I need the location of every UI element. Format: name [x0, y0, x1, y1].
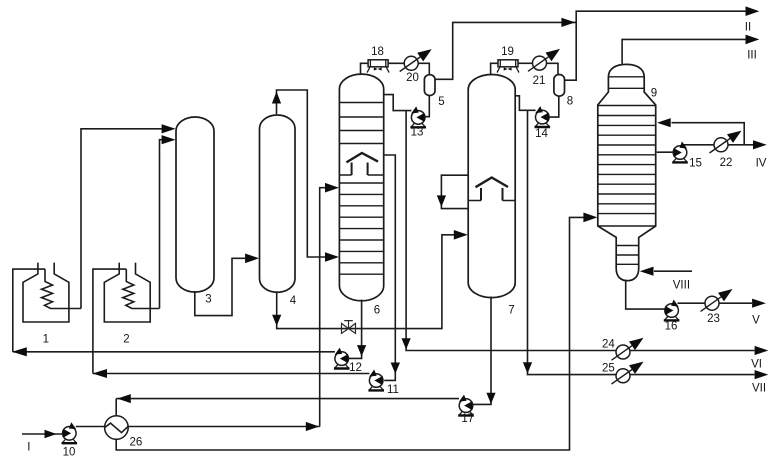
pipe pump10 to HX26 — [76, 426, 105, 428]
svg-text:8: 8 — [567, 96, 573, 108]
svg-text:20: 20 — [406, 72, 419, 84]
cooler 23 — [701, 289, 733, 311]
heat exchanger 26 — [105, 416, 129, 440]
pipe furnace 2 feed — [92, 269, 369, 378]
pipe pump 14 reflux to column 7 — [515, 96, 535, 111]
svg-text:II: II — [745, 21, 751, 33]
pipe cooler 20 to vessel 5 — [418, 63, 429, 75]
svg-text:5: 5 — [438, 96, 444, 108]
pipe column 6 bottoms to pump 12 — [349, 300, 366, 359]
pipe column 3 bottoms to column 4 — [195, 254, 259, 316]
furnace 2 — [104, 263, 159, 322]
pipe column 6 side draw to pump 11 — [384, 155, 400, 380]
svg-text:IV: IV — [756, 157, 767, 169]
svg-text:4: 4 — [290, 295, 297, 307]
svg-text:V: V — [752, 314, 760, 326]
pipe pump 16 to cooler 23 and stream V — [678, 299, 766, 308]
svg-text:11: 11 — [387, 384, 399, 396]
svg-text:23: 23 — [707, 313, 720, 325]
cooler 21 — [528, 49, 560, 71]
svg-text:19: 19 — [501, 46, 514, 58]
column 9 — [598, 64, 656, 280]
svg-text:14: 14 — [535, 128, 548, 140]
pump 13 — [410, 106, 426, 127]
svg-text:III: III — [747, 49, 757, 61]
pump 16 — [664, 300, 680, 321]
cooler 22 — [710, 131, 742, 153]
svg-text:21: 21 — [533, 75, 546, 87]
heat exchanger 19 condenser — [497, 60, 519, 73]
svg-text:1: 1 — [43, 334, 49, 346]
stream VIII inlet — [640, 267, 692, 276]
svg-text:26: 26 — [130, 436, 143, 448]
pipe column 7 circulation loop — [437, 175, 468, 208]
pipe pump17 to HX26 shell — [116, 394, 459, 416]
pump 10 — [62, 422, 78, 443]
column 4 — [260, 115, 296, 292]
pump 15 — [672, 142, 688, 163]
pipe furnace 2 outlet to column 3 — [160, 135, 176, 308]
pipe pump 15 to cooler 22 and stream IV — [681, 140, 767, 149]
svg-text:17: 17 — [461, 413, 474, 425]
svg-text:12: 12 — [349, 362, 362, 374]
svg-text:16: 16 — [665, 320, 678, 332]
pipe column 4 overhead to column 6 — [272, 90, 339, 262]
svg-text:13: 13 — [411, 126, 424, 138]
column 6 — [339, 74, 383, 301]
svg-text:24: 24 — [602, 338, 615, 350]
pipe pump 14 branch to stream VII — [523, 110, 768, 379]
pipe HX19 to cooler 21 — [518, 62, 533, 64]
pipe reflux return to column 9 — [657, 118, 744, 145]
stream I inlet line — [22, 430, 63, 438]
svg-text:25: 25 — [602, 363, 615, 375]
pipe column 9 overhead stream III — [622, 35, 759, 66]
pipe HX26 bottom to column 9 feed — [116, 213, 597, 451]
svg-text:2: 2 — [123, 334, 129, 346]
column 7 — [468, 75, 515, 298]
pipe HX18 to cooler 20 — [388, 62, 404, 64]
column 3 — [176, 117, 214, 292]
pipe pump 13 reflux to column 6 — [384, 95, 412, 111]
pipe vessel 8 gas and stream II — [564, 6, 759, 80]
pipe pump 13 branch to stream VI — [402, 111, 769, 356]
svg-text:22: 22 — [720, 157, 733, 169]
svg-text:6: 6 — [374, 305, 380, 317]
feed distributor column 7 — [476, 178, 509, 201]
pipe vessel 5 gas to stream II header — [435, 18, 576, 80]
pipe HX26 to column 6 feed riser — [128, 183, 339, 431]
pump 12 — [334, 348, 350, 369]
pipe column 9 draw to pump 15 — [657, 151, 674, 153]
pipe vessel 8 bottoms to pump 14 — [549, 96, 559, 118]
pump 17 — [458, 395, 474, 416]
vessel 8 reflux drum — [554, 75, 565, 97]
pipe furnace 1 outlet to column 3 — [81, 124, 176, 308]
pipe furnace 1 feed — [12, 269, 335, 356]
svg-text:15: 15 — [689, 158, 702, 170]
svg-text:7: 7 — [508, 305, 514, 317]
feed distributor column 6 — [346, 153, 378, 175]
pipe cooler 21 to vessel 8 — [547, 63, 558, 75]
pump 14 — [535, 106, 551, 127]
pipe column 7 overhead to HX19 — [491, 63, 499, 75]
pipe column 4 bottoms to column 7 with valve branch — [272, 230, 468, 329]
svg-text:VII: VII — [752, 383, 766, 395]
heat exchanger 18 condenser — [367, 60, 389, 73]
svg-text:VI: VI — [751, 359, 762, 371]
svg-text:18: 18 — [371, 46, 384, 58]
svg-text:I: I — [27, 441, 30, 453]
pipe vessel 5 bottoms to pump 13 — [425, 95, 429, 117]
cooler 25 — [612, 362, 644, 384]
svg-text:3: 3 — [205, 294, 211, 306]
pipe column 6 overhead to HX18 — [361, 63, 369, 75]
svg-text:VIII: VIII — [673, 279, 690, 291]
pipe column 9 bottoms to pump 16 — [626, 280, 665, 310]
cooler 24 — [612, 338, 644, 360]
vessel 5 reflux drum — [424, 75, 435, 96]
pipe column 7 bottoms to pump 17 — [473, 297, 495, 405]
furnace 1 — [23, 263, 81, 322]
svg-text:9: 9 — [651, 88, 657, 100]
cooler 20 — [400, 49, 432, 71]
svg-text:10: 10 — [63, 447, 76, 459]
valve — [342, 321, 356, 334]
pump 11 — [368, 370, 384, 391]
